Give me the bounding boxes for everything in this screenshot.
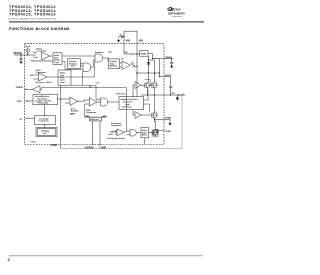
svg-text:TPS54615, TPS54616: TPS54615, TPS54616 — [9, 12, 56, 17]
low side FET Q3 — [152, 95, 158, 119]
svg-text:STOP HI LO: STOP HI LO — [116, 94, 126, 96]
high side FET Q2 — [145, 80, 158, 96]
header rule — [9, 21, 204, 22]
wire SYNC — [25, 100, 34, 101]
svg-text:Logic: Logic — [60, 82, 65, 84]
wire rail branch to vbias box — [137, 53, 153, 56]
svg-text:10 µA: 10 µA — [25, 45, 31, 48]
low side gate driver — [133, 110, 151, 119]
logic box hiccup/enable — [53, 53, 62, 65]
svg-text:Falling edge delayed 10 µs: Falling edge delayed 10 µs — [31, 61, 54, 63]
svg-text:RT: RT — [20, 119, 23, 121]
low range comparator box — [35, 105, 56, 128]
AND gate D pwm — [101, 98, 119, 106]
svg-text:Comparator: Comparator — [111, 124, 121, 127]
internal VIN rails — [124, 44, 137, 97]
svg-text:0.90 V: 0.90 V — [108, 134, 114, 136]
svg-text:SYNC: SYNC — [17, 101, 23, 103]
wire uvlo out — [53, 62, 95, 77]
input capacitor C-in — [119, 35, 125, 38]
current limit blanking box — [109, 59, 120, 69]
svg-text:Rising edge delayed: Rising edge delayed — [108, 138, 125, 140]
svg-text:V Mode: V Mode — [30, 141, 36, 143]
wire second PGND stub — [157, 130, 164, 132]
svg-text:Falling edge: Falling edge — [38, 103, 48, 105]
wire vbias to pin — [153, 54, 165, 59]
high side gate driver — [133, 82, 145, 98]
thermal shutdown box — [68, 59, 81, 69]
one shot box — [141, 128, 149, 138]
wire AGND rail — [60, 85, 62, 149]
svg-text:Logic: Logic — [54, 62, 59, 64]
IC boundary dashed border — [25, 44, 164, 145]
ramp generator box — [90, 117, 102, 121]
external VIN rail — [124, 31, 137, 44]
svg-text:AGND: AGND — [50, 144, 57, 147]
UVLO comparator triangle — [34, 73, 54, 81]
svg-text:S/D: S/D — [109, 52, 113, 54]
svg-text:Logic: Logic — [125, 104, 130, 106]
node SS/ENA junction — [27, 54, 28, 55]
svg-text:OC: OC — [121, 59, 124, 61]
AND gate A — [83, 63, 91, 72]
bottom row gate C — [127, 130, 141, 137]
wire blanking box to comparator — [108, 58, 120, 65]
wire gate B output — [103, 57, 109, 59]
svg-text:VIN: VIN — [126, 38, 130, 42]
external VBIAS capacitor — [170, 59, 173, 68]
oscillator box — [33, 94, 58, 104]
PH load arrow — [176, 95, 178, 101]
error amplifier — [58, 97, 83, 106]
high side FET Q1 — [145, 82, 151, 95]
current limit comparator — [120, 61, 135, 70]
AND gate B shutdown — [95, 54, 103, 62]
junction on VIN leg — [123, 36, 124, 37]
svg-text:1.5 V: 1.5 V — [96, 83, 101, 85]
pin VSENSE (bottom) — [92, 121, 93, 145]
svg-text:Comparator: Comparator — [86, 111, 96, 114]
external BOOT capacitor — [169, 86, 172, 95]
body diode Q1 — [148, 82, 151, 87]
svg-text:CLK Hiccup: CLK Hiccup — [122, 107, 133, 109]
tall logic box — [58, 70, 71, 85]
wire gate A out to gate B — [91, 60, 95, 67]
misc plumbing wires — [53, 58, 150, 113]
svg-text:PG: PG — [89, 86, 92, 88]
svg-text:PWRGD: PWRGD — [16, 87, 24, 89]
external ground return (gray) — [61, 95, 182, 149]
svg-text:VIN: VIN — [139, 38, 143, 42]
wire boot stub — [160, 76, 165, 78]
svg-text:TEXAS: TEXAS — [172, 8, 181, 12]
svg-text:2: 2 — [8, 257, 11, 262]
wire VIN pin1 down — [124, 44, 137, 54]
svg-text:1 mA: 1 mA — [33, 56, 38, 59]
pwrgd driver (points left) — [25, 86, 42, 93]
svg-text:VBIAS: VBIAS — [141, 52, 147, 55]
vbias regulator box — [140, 51, 148, 57]
wire VIN pin2 rail down — [136, 44, 138, 97]
svg-text:Blank: Blank — [142, 135, 147, 137]
wire vbias to boot rail — [153, 59, 160, 77]
input cap ground arrow — [117, 38, 119, 42]
svg-text:PGND: PGND — [165, 131, 171, 133]
wire RT — [25, 117, 35, 119]
long feedback wire from powergood comparator — [42, 88, 127, 132]
svg-text:www.ti.com: www.ti.com — [173, 15, 183, 18]
wire Q4 drain to pgnd net — [154, 122, 156, 130]
TI logo bug — [167, 7, 173, 11]
wire enable comp to logic box — [52, 55, 54, 57]
svg-text:FUNCTIONAL BLOCK DIAGRAM: FUNCTIONAL BLOCK DIAGRAM — [9, 27, 70, 31]
node PH net — [141, 94, 185, 100]
svg-text:L: L — [183, 93, 184, 95]
svg-text:INSTRUMENTS: INSTRUMENTS — [168, 11, 185, 15]
body diode Q4 — [155, 130, 158, 135]
wire SS/ENA — [14, 54, 36, 56]
wire thermal to gate A — [80, 64, 83, 66]
svg-text:Comparator: Comparator — [39, 120, 49, 123]
node PGND net — [154, 119, 164, 122]
reference box — [36, 128, 57, 137]
pin COMP (bottom) — [99, 121, 100, 145]
ramp generator wire with sawtooth — [85, 104, 108, 117]
wire comparator out to control — [135, 65, 137, 67]
svg-text:PH: PH — [172, 93, 175, 95]
svg-text:Shutdown: Shutdown — [95, 51, 104, 54]
svg-text:SLVS407A – JANUARY 2002 – REVI: SLVS407A – JANUARY 2002 – REVISED APRIL … — [8, 17, 57, 20]
power rail horizontal — [136, 72, 160, 74]
external soft-start capacitor — [19, 55, 22, 64]
svg-text:(150°): (150°) — [71, 66, 76, 68]
svg-text:Hysteresis: 150 mV: Hysteresis: 150 mV — [36, 81, 53, 84]
rail to FET2 drain — [154, 60, 156, 82]
svg-text:gm: gm — [71, 113, 74, 115]
body diode Q3 — [155, 112, 158, 117]
adaptive dead-time control logic box — [119, 97, 144, 110]
enable comparator — [42, 52, 54, 60]
svg-text:Ramp Gen: Ramp Gen — [90, 119, 98, 121]
svg-text:VIN: VIN — [30, 75, 34, 77]
PWM comparator — [83, 98, 100, 106]
boot rail with diode — [148, 56, 150, 82]
wire logic box to gate B — [62, 55, 95, 57]
powergood comparator — [115, 129, 124, 136]
svg-text:Comparator: Comparator — [36, 71, 46, 74]
wires top logic — [53, 56, 109, 70]
input cap polarity + — [120, 34, 122, 36]
wire control outputs — [144, 89, 150, 113]
wire box to gate A low input — [62, 62, 83, 70]
sense FET Q4 — [145, 121, 164, 144]
wire tall logic box — [71, 72, 101, 100]
body diode Q2 — [155, 82, 158, 87]
diode D1 boot — [147, 62, 149, 64]
svg-text:Vref: Vref — [43, 133, 47, 135]
current source 10uA — [26, 49, 30, 53]
svg-text:PGND: PGND — [165, 117, 172, 119]
footer rule — [9, 254, 203, 257]
svg-text:Blanking: Blanking — [110, 66, 118, 68]
